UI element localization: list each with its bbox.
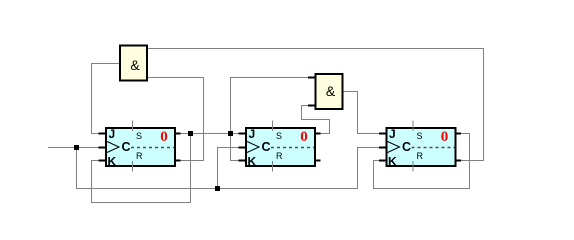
wire: U1.Q feedback down and around to U1.K — [92, 134, 191, 203]
U3 pin Q — [455, 133, 462, 135]
U3 state dashed line — [412, 147, 455, 149]
svg-text:R: R — [276, 151, 283, 161]
junction: U1.Q line at K feedback branch — [188, 131, 193, 136]
AND gate G1 body — [120, 46, 147, 81]
wire: U1.Q to U2.J — [177, 133, 244, 135]
U1 pin J — [99, 133, 108, 135]
U1 pin K — [99, 160, 108, 162]
wire: clock input line to U1.C — [48, 147, 104, 149]
U1 pin Qbar — [174, 160, 181, 162]
svg-text:0: 0 — [441, 129, 449, 145]
svg-text:C: C — [262, 140, 271, 154]
U1 set stub (top) — [132, 121, 134, 132]
U3 pin C — [379, 147, 388, 149]
wire: U3.Q feedback around to U3.K — [374, 134, 470, 189]
U3 set stub (top) — [412, 121, 414, 132]
svg-text:&: & — [130, 57, 140, 73]
wire: U3.Qbar long feedback to G1 input A — [147, 49, 484, 161]
U3 pin Qbar — [455, 160, 462, 162]
svg-text:S: S — [276, 131, 282, 141]
svg-text:C: C — [122, 140, 131, 154]
junction: clock line at U1.C branch — [74, 145, 79, 150]
svg-text:J: J — [109, 127, 116, 141]
U1 pin C — [99, 147, 108, 149]
U1 clock chevron — [107, 142, 119, 153]
junction: U1.Q line at G2/U2.K tap — [228, 131, 233, 136]
U2 pin Qbar — [314, 160, 321, 162]
wire: U1.Qbar to G1 input B — [147, 78, 204, 161]
wire: G2 output to U3.J — [343, 92, 385, 134]
U2 pin C — [239, 147, 248, 149]
svg-text:S: S — [136, 131, 142, 141]
svg-text:J: J — [249, 127, 256, 141]
U1 reset stub (bottom) — [132, 161, 134, 172]
U3 pin K — [379, 160, 388, 162]
svg-text:S: S — [417, 131, 423, 141]
svg-text:C: C — [402, 140, 411, 154]
wire: Q1 tap down to U2.K — [231, 134, 245, 161]
U2 clock chevron — [247, 142, 259, 153]
svg-text:J: J — [389, 127, 396, 141]
wire: G1 output to U1.J — [92, 64, 120, 134]
svg-text:0: 0 — [300, 129, 308, 145]
wire: clock trunk from junction down and across to U3.C — [77, 148, 385, 189]
AND gate G2 body — [316, 74, 343, 109]
U3 pin J — [379, 133, 388, 135]
svg-text:&: & — [326, 83, 336, 99]
U2 pin K — [239, 160, 248, 162]
svg-text:K: K — [108, 155, 117, 169]
wire: clock branch up to U2.C — [218, 148, 245, 189]
G2 input pin A (left top) — [308, 77, 317, 79]
wire: U2.Q zigzag to G2 input B — [302, 106, 330, 134]
U2 pin Q — [314, 133, 321, 135]
U3 reset stub (bottom) — [412, 161, 414, 172]
svg-text:0: 0 — [160, 129, 168, 145]
U1 pin Q — [174, 133, 181, 135]
U1 state dashed line — [131, 147, 174, 149]
U2 state dashed line — [271, 147, 314, 149]
U3 clock chevron — [388, 142, 400, 153]
U2 reset stub (bottom) — [272, 161, 274, 172]
G2 input pin B (left bottom) — [308, 105, 317, 107]
JK flip-flop U1 body — [106, 128, 175, 166]
svg-text:R: R — [417, 151, 424, 161]
junction: clock trunk at U2.C branch — [215, 186, 220, 191]
svg-text:K: K — [248, 155, 257, 169]
svg-text:K: K — [388, 155, 397, 169]
svg-text:R: R — [136, 151, 143, 161]
U2 pin J — [239, 133, 248, 135]
U2 set stub (top) — [272, 121, 274, 132]
JK flip-flop U3 body — [387, 128, 456, 166]
JK flip-flop U2 body — [246, 128, 315, 166]
wire: Q1 tap up to G2 input A — [231, 78, 316, 134]
